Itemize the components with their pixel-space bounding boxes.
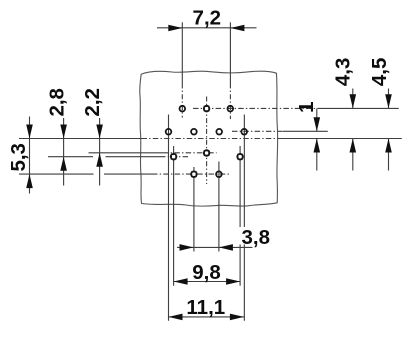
arrow 11,1 left bbox=[169, 314, 183, 321]
hole row4 left square pin bbox=[192, 172, 197, 177]
svg-text:4,3: 4,3 bbox=[332, 58, 355, 87]
hole A row1 bbox=[180, 106, 186, 112]
extension line 7,2 right bbox=[229, 22, 231, 86]
row1 centerline right solid bbox=[320, 107, 399, 109]
row2 centerline right solid bbox=[283, 130, 328, 132]
body outline (broken-edge square) bbox=[140, 71, 278, 206]
arrow 2,8 down bbox=[60, 125, 67, 139]
dimension line 2,2 vertical bbox=[99, 118, 101, 186]
svg-text:1: 1 bbox=[295, 101, 318, 112]
dimension line 2,8 vertical bbox=[63, 118, 65, 186]
dimension line 9,8 bbox=[174, 281, 241, 283]
hole row3 middle square pin bbox=[204, 151, 209, 156]
arrow 7,2 left bbox=[168, 25, 182, 32]
svg-text:11,1: 11,1 bbox=[186, 296, 225, 319]
dimension line 7,2 bbox=[157, 27, 257, 29]
svg-text:2,8: 2,8 bbox=[45, 88, 68, 117]
main horizontal centerline left solid bbox=[19, 138, 142, 140]
svg-text:7,2: 7,2 bbox=[193, 7, 222, 30]
hole row3 right square pin bbox=[238, 154, 243, 159]
dimension line 4,3 vertical bbox=[352, 89, 354, 109]
row3 side centerline bbox=[48, 156, 93, 158]
hole row3 left square pin bbox=[171, 154, 176, 159]
hole row2-1 bbox=[166, 129, 172, 135]
hole row2-3 bbox=[216, 129, 222, 135]
arrow 4,3 down bbox=[350, 94, 357, 108]
extension line 3,8 left through row4 hole bbox=[193, 167, 195, 252]
arrow 11,1 right bbox=[230, 314, 244, 321]
dimension line 1 vertical bbox=[316, 108, 318, 131]
arrow 4,5 up bbox=[385, 139, 392, 153]
row1 centerline dash-dot bbox=[193, 107, 320, 109]
svg-text:9,8: 9,8 bbox=[192, 261, 221, 284]
arrow 7,2 right bbox=[230, 25, 244, 32]
svg-text:3,8: 3,8 bbox=[242, 226, 271, 249]
extension line 11,1 left through row2 hole bbox=[168, 115, 170, 321]
arrow 5,3 down bbox=[26, 125, 33, 139]
arrow 3,8 left bbox=[180, 244, 194, 251]
extension line 9,8 right through row3 hole bbox=[239, 146, 241, 286]
arrow 3,8 right bbox=[219, 244, 233, 251]
arrow 2,2 down bbox=[96, 125, 103, 139]
hole row2-4 bbox=[241, 129, 247, 135]
hole row2-2 bbox=[191, 129, 197, 135]
arrow 2,8 up bbox=[60, 157, 67, 171]
arrow 9,8 left bbox=[174, 278, 188, 285]
row4 centerline bbox=[19, 173, 94, 175]
arrow 1 up bbox=[314, 139, 321, 153]
arrow 4,3 up bbox=[350, 139, 357, 153]
arrow 2,2 up bbox=[96, 153, 103, 167]
middle column vertical centerline bbox=[206, 97, 208, 185]
svg-text:5,3: 5,3 bbox=[7, 143, 30, 172]
dimension line 3,8 bbox=[177, 246, 253, 248]
hole B row1 square pin bbox=[204, 106, 209, 111]
extension line 9,8 left through row3 hole bbox=[173, 146, 175, 286]
arrow 5,3 up bbox=[26, 174, 33, 188]
arrow 4,5 down bbox=[385, 94, 392, 108]
hole row4 right bbox=[216, 171, 222, 177]
label 3,8 background mask bbox=[240, 227, 272, 245]
row2 centerline dash-dot bbox=[232, 130, 283, 132]
dimension line 11,1 bbox=[169, 316, 244, 318]
arrow 9,8 right bbox=[226, 278, 240, 285]
dimension line 5,3 vertical bbox=[29, 117, 31, 194]
row3 middle centerline bbox=[89, 152, 164, 154]
main horizontal centerline dash-dot through body bbox=[142, 138, 279, 140]
dimension line 4,5 vertical bbox=[388, 89, 390, 109]
extension line 7,2 left bbox=[181, 22, 183, 86]
svg-text:4,5: 4,5 bbox=[368, 58, 391, 87]
arrow 1 down bbox=[314, 117, 321, 131]
hole C row1 bbox=[228, 106, 234, 112]
extension line 11,1 right through row2 hole bbox=[243, 115, 245, 321]
main horizontal centerline right solid bbox=[278, 138, 402, 140]
extension line 3,8 right through row4 hole bbox=[218, 162, 220, 252]
svg-text:2,2: 2,2 bbox=[81, 88, 104, 117]
